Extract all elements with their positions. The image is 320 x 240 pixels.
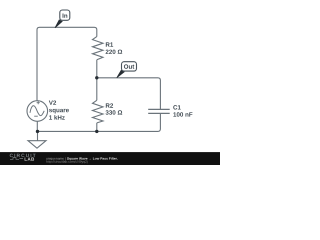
wire R2 bottom to ground rail: [96, 123, 98, 131]
resistor R2: [93, 100, 104, 123]
wire C1 bottom lead and ground rail: [38, 114, 161, 132]
label R2 value 330 ohm: [106, 110, 123, 114]
label R2: [106, 103, 113, 107]
node junction dot R2-ground: [95, 130, 98, 133]
label V2 type square: [49, 109, 69, 114]
ground symbol: [28, 131, 46, 148]
label V2 frequency 1 kHz: [49, 115, 65, 119]
node flag In: [55, 10, 70, 28]
footer credit title: [67, 157, 118, 160]
label R1: [106, 42, 113, 46]
node flag Out: [117, 62, 137, 78]
label R1 value 220 ohm: [106, 50, 123, 54]
wire Out junction down to R2 top: [96, 78, 98, 101]
wire V2 bottom lead: [36, 121, 38, 131]
footer logo LAB: [25, 158, 35, 161]
node junction dot V2-ground: [36, 130, 39, 133]
voltage source V2 circle and symbols: [27, 101, 48, 122]
footer credit author: [46, 157, 65, 160]
label C1 value 100 nF: [173, 112, 192, 116]
capacitor C1 plates: [148, 109, 170, 113]
wire In net: from V2 top, up left side, across top, down to R1: [37, 27, 97, 101]
label V2: [49, 100, 56, 104]
label C1: [173, 105, 180, 109]
wire R1 bottom to Out junction: [96, 60, 98, 78]
wire Out net horizontal to C1 top: [97, 78, 161, 109]
resistor R1: [93, 37, 104, 60]
footer credit url: [46, 160, 87, 163]
footer bar: [0, 152, 220, 165]
footer logo waveform mark: [10, 158, 23, 160]
node junction dot Out: [95, 76, 98, 79]
footer logo CIRCUIT: [10, 154, 36, 157]
